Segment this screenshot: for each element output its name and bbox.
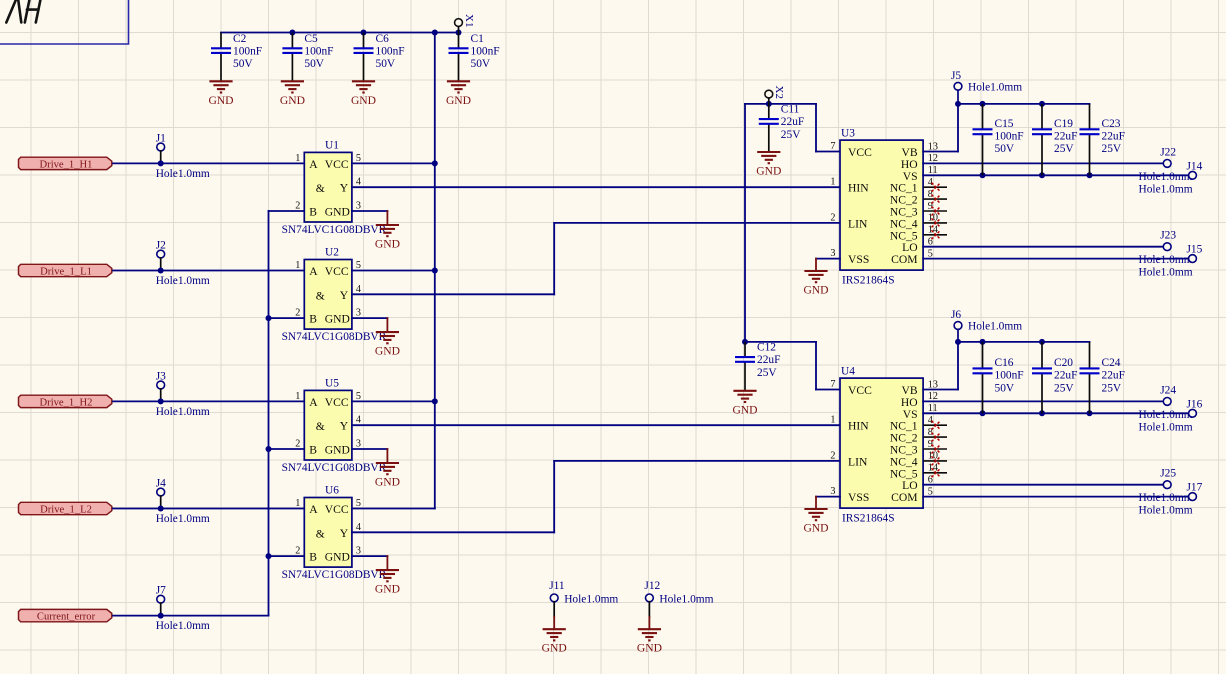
svg-text:GND: GND: [375, 345, 400, 358]
svg-text:2: 2: [295, 439, 300, 450]
svg-text:GND: GND: [208, 94, 233, 107]
svg-text:GND: GND: [803, 284, 828, 297]
wire J5 stub: [957, 90, 959, 101]
svg-text:100nF: 100nF: [471, 45, 500, 57]
svg-text:25V: 25V: [781, 129, 801, 141]
svg-text:C24: C24: [1102, 357, 1121, 369]
svg-text:GND: GND: [351, 94, 376, 107]
wire Current_error net: [113, 615, 269, 617]
svg-text:Hole1.0mm: Hole1.0mm: [659, 594, 713, 606]
svg-text:25V: 25V: [1054, 143, 1074, 155]
svg-text:B: B: [309, 206, 317, 219]
wire C11 rail: [745, 103, 816, 105]
wire Drive_1_H1 net: [113, 162, 304, 164]
svg-text:Hole1.0mm: Hole1.0mm: [1139, 492, 1193, 504]
svg-text:&: &: [316, 527, 325, 540]
wire U3 gnd stub: [815, 259, 817, 271]
svg-text:GND: GND: [375, 476, 400, 489]
svg-text:C5: C5: [304, 33, 318, 45]
svg-text:Hole1.0mm: Hole1.0mm: [564, 594, 618, 606]
wire J12 stub: [648, 602, 650, 617]
connector J16 circle: [1189, 409, 1197, 417]
AND gate U5 (SN74LVC1G08DBVR): [282, 377, 387, 474]
junction J1: [158, 160, 164, 166]
ground under J12: [638, 629, 661, 640]
junction J6: [955, 339, 961, 345]
ground at U5 pin3: [376, 463, 399, 474]
svg-text:U3: U3: [841, 128, 855, 140]
connector J25 circle: [1163, 481, 1171, 489]
wire VB up: [957, 104, 959, 152]
svg-text:Y: Y: [340, 289, 349, 302]
wire U4 HO to J24: [923, 400, 1163, 402]
wire U2.Y horizontal: [352, 293, 554, 295]
svg-text:1: 1: [295, 391, 300, 402]
junction: [1087, 172, 1093, 178]
wire U3 VSS: [816, 258, 840, 260]
svg-text:J4: J4: [156, 478, 166, 490]
junction: [980, 410, 986, 416]
svg-text:Hole1.0mm: Hole1.0mm: [968, 82, 1022, 94]
svg-text:7: 7: [830, 379, 835, 390]
svg-text:J1: J1: [156, 132, 166, 144]
connector J1 circle: [157, 143, 165, 151]
junction: [1039, 101, 1045, 107]
svg-text:LIN: LIN: [848, 217, 868, 230]
capacitor C19: [1032, 104, 1077, 175]
sheet corner line (title block edge): [0, 0, 129, 44]
svg-text:HIN: HIN: [848, 182, 869, 195]
connector J7 circle: [157, 595, 165, 603]
svg-text:25V: 25V: [757, 367, 777, 379]
ground under C2: [209, 81, 232, 92]
wire J11 gnd stub: [553, 617, 555, 629]
svg-text:3: 3: [356, 439, 361, 450]
svg-text:C20: C20: [1054, 357, 1073, 369]
svg-text:100nF: 100nF: [376, 45, 405, 57]
junction J2: [158, 268, 164, 274]
AND gate U1 (SN74LVC1G08DBVR): [282, 139, 387, 236]
no-connect cross pin 14: [932, 230, 941, 239]
wire to U3 VCC pin: [816, 151, 840, 153]
junction: [432, 30, 438, 36]
wire U3 LO to J23: [923, 246, 1163, 248]
svg-text:U5: U5: [325, 377, 339, 389]
wire J6 stub: [957, 329, 959, 339]
svg-text:100nF: 100nF: [233, 45, 262, 57]
svg-text:B: B: [309, 551, 317, 564]
svg-text:C15: C15: [995, 118, 1014, 130]
wire U3 HO to J22: [923, 162, 1163, 164]
svg-text:Hole1.0mm: Hole1.0mm: [1139, 409, 1193, 421]
svg-text:A: A: [309, 265, 318, 278]
svg-text:Y: Y: [340, 182, 349, 195]
svg-text:U1: U1: [325, 139, 339, 151]
junction: [361, 30, 367, 36]
svg-text:GND: GND: [756, 165, 781, 178]
driver IC U4 (IRS21864S): [830, 366, 947, 525]
svg-text:3: 3: [356, 546, 361, 557]
wire to U4 VCC pin: [816, 389, 840, 391]
svg-text:J7: J7: [156, 585, 166, 597]
svg-text:1: 1: [295, 498, 300, 509]
capacitor C15: [973, 104, 1024, 175]
svg-text:J3: J3: [156, 370, 166, 382]
svg-text:J11: J11: [549, 580, 565, 592]
svg-text:J24: J24: [1160, 384, 1176, 396]
wire U2 pin3 to gnd: [352, 317, 388, 319]
svg-text:VSS: VSS: [848, 253, 869, 266]
svg-text:A: A: [309, 158, 318, 171]
svg-text:&: &: [316, 289, 325, 302]
svg-text:GND: GND: [446, 94, 471, 107]
svg-text:100nF: 100nF: [995, 370, 1024, 382]
svg-text:5: 5: [356, 153, 361, 164]
svg-text:U2: U2: [325, 247, 339, 259]
svg-text:&: &: [316, 182, 325, 195]
wire U3 VS to J14: [923, 174, 1188, 176]
no-connect cross pin 8: [932, 195, 941, 204]
junction: [432, 268, 438, 274]
svg-text:VSS: VSS: [848, 491, 869, 504]
svg-text:Current_error: Current_error: [37, 612, 96, 623]
ground at U2 pin3: [376, 332, 399, 343]
svg-text:&: &: [316, 420, 325, 433]
wire U3 COM to J15: [923, 258, 1188, 260]
svg-text:X2: X2: [773, 86, 785, 99]
port Drive_1_H2: [19, 395, 112, 408]
no-connect cross pin 14: [932, 468, 941, 477]
wire to U3 VCC elbow: [815, 104, 817, 152]
junction: [980, 101, 986, 107]
svg-text:U4: U4: [841, 366, 855, 378]
svg-text:J2: J2: [156, 240, 166, 252]
junction X2: [766, 101, 772, 107]
svg-text:Drive_1_L1: Drive_1_L1: [40, 267, 92, 278]
svg-text:SN74LVC1G08DBVR: SN74LVC1G08DBVR: [282, 224, 387, 236]
wire Current_error vertical: [268, 211, 270, 616]
svg-text:25V: 25V: [1054, 382, 1074, 394]
svg-text:Hole1.0mm: Hole1.0mm: [968, 321, 1022, 333]
junction J7: [158, 613, 164, 619]
connector J2 circle: [157, 250, 165, 258]
svg-text:50V: 50V: [233, 58, 253, 70]
svg-text:SN74LVC1G08DBVR: SN74LVC1G08DBVR: [282, 462, 387, 474]
svg-text:Y: Y: [340, 527, 349, 540]
capacitor C24: [1080, 342, 1125, 413]
wire U5 pin3 to gnd: [352, 448, 388, 450]
svg-text:VCC: VCC: [848, 146, 872, 159]
svg-text:GND: GND: [325, 206, 350, 219]
junction: [432, 160, 438, 166]
wire X1 stub: [458, 27, 460, 33]
svg-text:J5: J5: [951, 70, 961, 82]
junction: [289, 30, 295, 36]
capacitor C2: [211, 33, 262, 82]
svg-text:Hole1.0mm: Hole1.0mm: [156, 620, 210, 632]
svg-text:Hole1.0mm: Hole1.0mm: [1139, 254, 1193, 266]
svg-text:VCC: VCC: [325, 158, 349, 171]
wire U6 pin5 VCC: [352, 508, 435, 510]
svg-text:X1: X1: [463, 14, 475, 27]
junction: [1087, 410, 1093, 416]
wire VCC vertical to gates: [434, 33, 436, 509]
svg-text:2: 2: [830, 450, 835, 461]
svg-text:50V: 50V: [304, 58, 324, 70]
connector J22 circle: [1163, 160, 1171, 168]
svg-text:HIN: HIN: [848, 420, 869, 433]
capacitor C20: [1032, 342, 1077, 413]
svg-text:B: B: [309, 313, 317, 326]
svg-text:22uF: 22uF: [757, 354, 780, 366]
svg-text:C23: C23: [1102, 118, 1121, 130]
wire bootstrap rail U3: [958, 103, 1090, 105]
wire C12 rail: [745, 341, 816, 343]
wire Drive_1_L1 net: [113, 270, 304, 272]
wire U4 COM to J17: [923, 496, 1188, 498]
ground under C11: [757, 152, 780, 163]
svg-text:3: 3: [830, 486, 835, 497]
connector J11 circle: [550, 594, 558, 602]
connector J12 circle: [646, 594, 654, 602]
svg-text:GND: GND: [325, 444, 350, 457]
svg-text:B: B: [309, 444, 317, 457]
svg-text:VCC: VCC: [848, 384, 872, 397]
svg-text:25V: 25V: [1102, 382, 1122, 394]
ground at U4 VSS: [804, 509, 827, 520]
svg-text:22uF: 22uF: [1102, 370, 1125, 382]
capacitor C11: [759, 104, 804, 152]
ground at U3 VSS: [804, 271, 827, 282]
connector X2 circle: [765, 90, 773, 98]
svg-text:4: 4: [356, 284, 361, 295]
svg-text:2: 2: [830, 212, 835, 223]
junction: [1039, 172, 1045, 178]
wire to U5 pin2: [269, 448, 305, 450]
svg-text:VCC: VCC: [325, 265, 349, 278]
ground under C6: [352, 81, 375, 92]
wire to U2 pin2: [269, 317, 305, 319]
svg-text:COM: COM: [891, 491, 917, 504]
junction: [266, 553, 272, 559]
svg-text:COM: COM: [891, 253, 917, 266]
wire U5 gnd stub: [386, 449, 388, 463]
svg-text:J12: J12: [644, 580, 660, 592]
connector J17 circle: [1189, 493, 1197, 501]
svg-text:VCC: VCC: [325, 396, 349, 409]
svg-text:Hole1.0mm: Hole1.0mm: [156, 406, 210, 418]
wire U4 VB: [923, 389, 958, 391]
wire U1 pin5 VCC: [352, 162, 435, 164]
wire VB up U4: [957, 342, 959, 390]
ground at U6 pin3: [376, 570, 399, 581]
svg-text:GND: GND: [803, 522, 828, 535]
svg-text:J16: J16: [1187, 398, 1203, 410]
svg-text:LIN: LIN: [848, 455, 868, 468]
wire J4 stub: [160, 496, 162, 509]
svg-text:Drive_1_L2: Drive_1_L2: [40, 505, 92, 516]
capacitor C12: [735, 342, 780, 391]
svg-text:J17: J17: [1187, 482, 1203, 494]
svg-text:50V: 50V: [471, 58, 491, 70]
wire U1.Y to U3.HIN: [352, 186, 840, 188]
junction J4: [158, 506, 164, 512]
wire J11 stub: [553, 602, 555, 617]
junction: [980, 339, 986, 345]
wire U2 gnd stub: [386, 318, 388, 332]
svg-text:Drive_1_H2: Drive_1_H2: [40, 398, 93, 409]
svg-text:J6: J6: [951, 309, 961, 321]
wire Drive_1_L2 net: [113, 508, 304, 510]
wire U5.Y to U4.HIN: [352, 424, 840, 426]
wire U1 gnd stub: [386, 211, 388, 225]
junction: [980, 172, 986, 178]
svg-text:SN74LVC1G08DBVR: SN74LVC1G08DBVR: [282, 569, 387, 581]
wire U3 VB: [923, 151, 958, 153]
wire U4 LO to J25: [923, 484, 1163, 486]
capacitor C6: [354, 33, 405, 82]
svg-text:J15: J15: [1187, 244, 1203, 256]
capacitor C5: [282, 33, 333, 82]
svg-text:Hole1.0mm: Hole1.0mm: [1139, 171, 1193, 183]
wire J12 gnd stub: [648, 617, 650, 629]
svg-text:4: 4: [356, 522, 361, 533]
capacitor C16: [973, 342, 1024, 413]
svg-text:1: 1: [295, 153, 300, 164]
ground under C12: [733, 391, 756, 402]
port Drive_1_L1: [19, 264, 112, 277]
svg-text:1: 1: [295, 260, 300, 271]
wire bootstrap rail U4: [958, 341, 1090, 343]
no-connect cross pin 10: [932, 456, 941, 465]
ground under C1: [447, 81, 470, 92]
wire U4 VS to J16: [923, 412, 1188, 414]
svg-text:GND: GND: [280, 94, 305, 107]
svg-text:GND: GND: [325, 551, 350, 564]
svg-text:Y: Y: [340, 420, 349, 433]
wire U6 pin3 to gnd: [352, 555, 388, 557]
capacitor C23: [1080, 104, 1125, 175]
junction: [432, 398, 438, 404]
connector X1 circle: [455, 19, 463, 27]
no-connect cross pin 9: [932, 445, 941, 454]
AND gate U6 (SN74LVC1G08DBVR): [282, 485, 387, 582]
svg-text:A: A: [309, 396, 318, 409]
wire to U4.LIN: [554, 460, 840, 462]
driver IC U3 (IRS21864S): [830, 128, 947, 287]
svg-text:J25: J25: [1160, 468, 1176, 480]
connector J23 circle: [1163, 243, 1171, 251]
ground at U1 pin3: [376, 225, 399, 236]
svg-text:C6: C6: [376, 33, 390, 45]
no-connect cross pin 4: [932, 421, 941, 430]
wire U6.Y horizontal: [352, 531, 554, 533]
wire X2 stub: [768, 98, 770, 104]
port Drive_1_H1: [19, 157, 112, 170]
wire J7 stub: [160, 603, 162, 616]
svg-text:C12: C12: [757, 342, 776, 354]
svg-text:3: 3: [356, 201, 361, 212]
svg-text:5: 5: [356, 260, 361, 271]
svg-text:5: 5: [356, 498, 361, 509]
svg-text:Hole1.0mm: Hole1.0mm: [1139, 267, 1193, 279]
svg-text:2: 2: [295, 546, 300, 557]
svg-text:5: 5: [356, 391, 361, 402]
connector J15 circle: [1189, 255, 1197, 263]
svg-text:2: 2: [295, 308, 300, 319]
svg-text:Hole1.0mm: Hole1.0mm: [1139, 183, 1193, 195]
wire to U4 VCC elbow: [815, 342, 817, 390]
svg-text:IRS21864S: IRS21864S: [842, 513, 895, 525]
no-connect cross pin 4: [932, 183, 941, 192]
port Drive_1_L2: [19, 502, 112, 515]
junction: [456, 30, 462, 36]
svg-text:3: 3: [356, 308, 361, 319]
wire J1 stub: [160, 151, 162, 164]
svg-text:GND: GND: [637, 642, 662, 655]
junction: [266, 315, 272, 321]
svg-text:2: 2: [295, 201, 300, 212]
svg-text:VCC: VCC: [325, 503, 349, 516]
wire to U1 pin2: [269, 210, 305, 212]
AND gate U2 (SN74LVC1G08DBVR): [282, 247, 387, 344]
svg-text:Hole1.0mm: Hole1.0mm: [156, 168, 210, 180]
svg-text:GND: GND: [325, 313, 350, 326]
wire U1 pin3 to gnd: [352, 210, 388, 212]
wire U4 gnd stub: [815, 497, 817, 509]
no-connect cross pin 9: [932, 207, 941, 216]
wire J2 stub: [160, 258, 162, 271]
junction: [266, 446, 272, 452]
junction J3: [158, 398, 164, 404]
svg-text:C19: C19: [1054, 118, 1073, 130]
connector J3 circle: [157, 381, 165, 389]
connector J4 circle: [157, 488, 165, 496]
svg-text:Hole1.0mm: Hole1.0mm: [1139, 421, 1193, 433]
wire to U6 pin2: [269, 555, 305, 557]
wire Drive_1_H2 net: [113, 400, 304, 402]
svg-text:GND: GND: [375, 583, 400, 596]
svg-text:50V: 50V: [995, 382, 1015, 394]
svg-text:100nF: 100nF: [304, 45, 333, 57]
svg-text:IRS21864S: IRS21864S: [842, 275, 895, 287]
wire U5 pin5 VCC: [352, 400, 435, 402]
wire U2.Y vertical: [553, 223, 555, 294]
svg-text:Hole1.0mm: Hole1.0mm: [156, 275, 210, 287]
wire U2 pin5 VCC: [352, 270, 435, 272]
connector J6 circle: [954, 322, 962, 330]
junction C12: [742, 339, 748, 345]
no-connect cross pin 8: [932, 433, 941, 442]
junction: [1039, 410, 1045, 416]
svg-text:7: 7: [830, 141, 835, 152]
connector J24 circle: [1163, 398, 1171, 406]
wire VCC drop C11-C12: [744, 104, 746, 342]
svg-text:1: 1: [830, 415, 835, 426]
svg-text:4: 4: [356, 177, 361, 188]
svg-text:J23: J23: [1160, 230, 1176, 242]
svg-text:Drive_1_H1: Drive_1_H1: [40, 160, 93, 171]
svg-text:J14: J14: [1187, 160, 1203, 172]
ground under J11: [543, 629, 566, 640]
connector J5 circle: [954, 82, 962, 90]
svg-text:22uF: 22uF: [1054, 131, 1077, 143]
svg-text:Hole1.0mm: Hole1.0mm: [156, 513, 210, 525]
capacitor C1: [449, 33, 500, 82]
svg-text:25V: 25V: [1102, 143, 1122, 155]
svg-text:50V: 50V: [995, 143, 1015, 155]
svg-text:22uF: 22uF: [1054, 370, 1077, 382]
